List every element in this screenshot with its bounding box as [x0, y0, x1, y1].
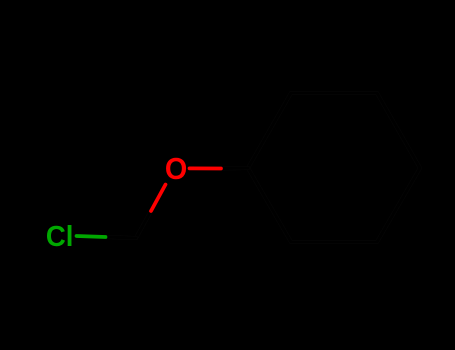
atom label Cl	[46, 219, 74, 252]
bond Cl-CH2 black half: core	[106, 237, 137, 238]
bond O-C1 red half	[190, 167, 222, 171]
bond CH2-O black half: halo	[136, 211, 151, 238]
bond CH2-O red half	[151, 185, 166, 212]
ring cyclohexane: black core stroke	[248, 93, 420, 242]
bond CH2-O black half: core	[136, 211, 151, 238]
bond O-C1 black half: core	[221, 167, 248, 171]
bond Cl-CH2 green half	[77, 236, 106, 237]
bond O-C1 black half: halo	[221, 166, 248, 171]
svg-text:O: O	[165, 152, 187, 186]
ring cyclohexane: gray halo understroke	[248, 93, 420, 242]
svg-text:Cl: Cl	[46, 219, 74, 252]
bond Cl-CH2 black half: halo	[106, 237, 137, 238]
atom label O	[165, 152, 187, 186]
